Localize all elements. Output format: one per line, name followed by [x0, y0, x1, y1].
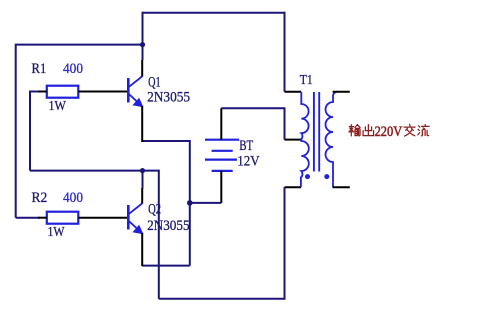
label output annotation (red): [349, 124, 429, 136]
node polarity dot primary: [305, 174, 310, 179]
wire secondary bottom stub: [333, 186, 350, 188]
wire emitter rail vertical: [189, 140, 191, 266]
svg-text:2N3055: 2N3055: [147, 89, 190, 105]
transformer primary winding: [301, 92, 309, 188]
wire R2 pin left: [38, 217, 47, 219]
svg-text:12V: 12V: [237, 154, 260, 170]
svg-text:BT: BT: [239, 138, 253, 154]
svg-text:2N3055: 2N3055: [147, 218, 190, 234]
svg-text:R2: R2: [32, 190, 48, 206]
wire primary center-tap stub: [285, 139, 302, 141]
wire primary top stub: [285, 91, 302, 93]
transformer secondary winding: [326, 92, 338, 188]
wire Q1 collector rail: [142, 12, 144, 60]
wire battery bottom horizontal: [190, 202, 222, 204]
wire left bottom vertical: [158, 170, 160, 299]
wire R2 left: [16, 217, 40, 219]
wire R1 left vertical: [29, 92, 31, 171]
svg-text:220V: 220V: [375, 124, 403, 140]
svg-text:1W: 1W: [49, 99, 67, 114]
wire battery pin top: [220, 108, 222, 139]
wire R1 pin left: [38, 91, 47, 93]
transistor Q1: [128, 77, 142, 107]
node junction emitter rail: [187, 200, 193, 206]
svg-text:1W: 1W: [48, 225, 66, 240]
glyph 流: [418, 125, 429, 136]
glyph 交: [404, 124, 415, 136]
wire emitter Q1 horizontal: [142, 140, 190, 142]
svg-text:R1: R1: [32, 61, 47, 77]
wire Q1 emitter pin: [141, 106, 143, 142]
wire top rail: [143, 12, 285, 14]
transistor Q2: [128, 204, 142, 234]
wire primary-top vertical: [284, 12, 286, 92]
wire center-tap vertical: [284, 107, 286, 139]
battery BT: [205, 140, 239, 171]
wire battery pin bottom: [220, 171, 222, 203]
glyph 输: [349, 125, 360, 136]
wire Q2 collector drop: [142, 171, 144, 189]
wire R1 left stub: [29, 91, 40, 93]
wire bottom rail: [159, 298, 285, 300]
wire primary-bottom vertical: [284, 187, 286, 300]
resistor R2: [47, 212, 79, 224]
wire R2 to Q2 base: [78, 217, 127, 219]
wire Q1 collector pin: [141, 60, 143, 77]
svg-text:Q2: Q2: [148, 201, 161, 217]
svg-text:400: 400: [63, 190, 83, 206]
wire Q2 emitter pin: [141, 233, 143, 266]
wire emitter Q2 horizontal: [142, 265, 190, 267]
svg-text:T1: T1: [300, 73, 313, 88]
wire cross-coupling top horizontal: [16, 44, 143, 46]
svg-text:Q1: Q1: [148, 74, 161, 90]
wire left edge vertical: [15, 44, 17, 218]
resistor R1: [47, 86, 79, 98]
transformer core: [314, 92, 319, 172]
wire R1 to Q1 base: [78, 91, 127, 93]
svg-text:400: 400: [63, 61, 83, 77]
node polarity dot secondary: [324, 174, 329, 179]
wire cross-coupling mid horizontal: [30, 170, 159, 172]
wire Q2 collector pin: [141, 188, 143, 204]
wire battery top horizontal: [221, 107, 284, 109]
wire secondary top stub: [333, 91, 350, 93]
node junction top-left: [140, 42, 145, 47]
wire primary bottom stub: [285, 186, 302, 188]
node junction mid-left: [140, 168, 145, 173]
glyph 出: [363, 125, 374, 136]
